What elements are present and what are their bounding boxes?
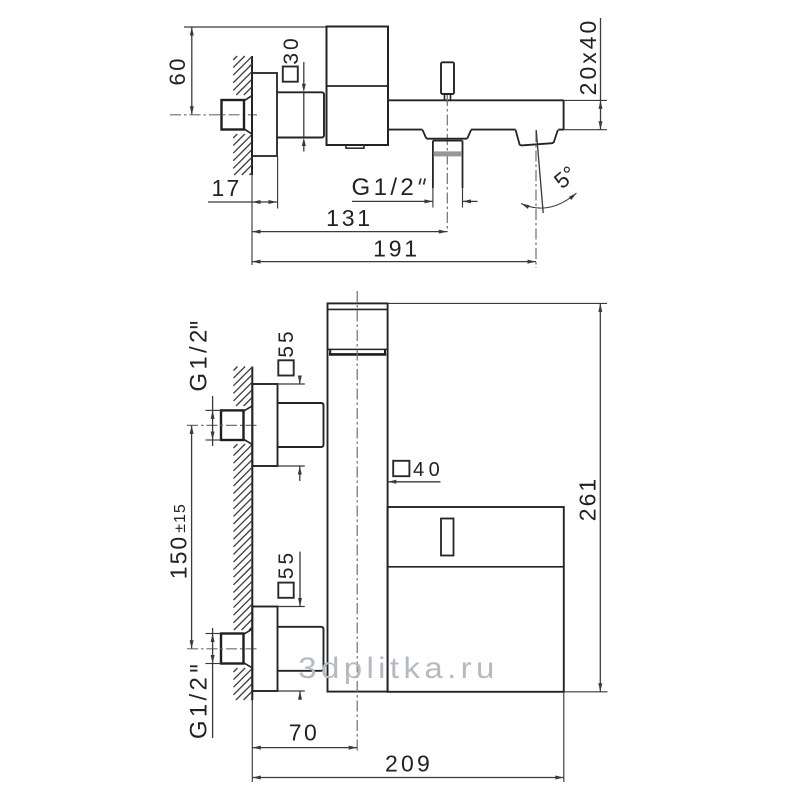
label 17 bbox=[212, 175, 242, 201]
spout arm (top view) bbox=[388, 100, 564, 129]
svg-text:G1/2: G1/2 bbox=[352, 174, 418, 201]
bar centerline bbox=[356, 291, 358, 752]
svg-text:191: 191 bbox=[373, 236, 420, 262]
5 degree arc with arrows bbox=[521, 193, 577, 209]
dimension line 191 bbox=[252, 260, 536, 264]
hand-shower nipple bbox=[433, 141, 463, 208]
dimension line 131 bbox=[252, 230, 447, 234]
label 191 bbox=[373, 236, 420, 262]
svg-text:70: 70 bbox=[289, 720, 320, 746]
nipple knurl band bbox=[434, 151, 462, 156]
diverter knob bbox=[441, 62, 454, 100]
handle box slot bbox=[441, 519, 454, 556]
extension line top of body for dim 60 bbox=[184, 26, 327, 28]
svg-text:17: 17 bbox=[212, 175, 242, 201]
vertical body bar bbox=[328, 303, 388, 691]
svg-text:G1/2: G1/2 bbox=[185, 326, 212, 391]
lower wall union bbox=[221, 629, 252, 667]
wall section line (front view) bbox=[251, 367, 253, 783]
label 20x40 bbox=[575, 18, 601, 96]
leader dim G1/2 lower bbox=[206, 628, 222, 738]
upper union centerline bbox=[187, 424, 258, 426]
label 209 bbox=[385, 751, 433, 777]
extension line box right for 209 bbox=[563, 692, 565, 782]
svg-text:60: 60 bbox=[165, 56, 190, 85]
label square30 digits bbox=[280, 35, 303, 64]
svg-text:261: 261 bbox=[574, 477, 600, 521]
svg-text:55: 55 bbox=[275, 328, 298, 357]
svg-text:3dplitka.ru: 3dplitka.ru bbox=[298, 650, 499, 684]
svg-text:±15: ±15 bbox=[172, 503, 189, 533]
label square55 upper glyph bbox=[278, 360, 293, 375]
spout centerline bbox=[535, 131, 537, 268]
extension line escutcheon front for dim 17 bbox=[277, 156, 279, 209]
dimension line 55 lower bbox=[298, 552, 302, 700]
escutcheon plate (top view) bbox=[252, 73, 277, 156]
upper wall union bbox=[221, 406, 252, 444]
svg-text:G1/2: G1/2 bbox=[185, 674, 212, 739]
upper connector block bbox=[278, 403, 324, 447]
label G1/2 upper bbox=[185, 323, 212, 392]
centerline wall union (top view) bbox=[170, 114, 257, 116]
spout outlet bbox=[516, 130, 558, 146]
svg-text:20x40: 20x40 bbox=[575, 18, 601, 96]
leader line square40 bbox=[388, 480, 441, 484]
dimension line 209 bbox=[252, 776, 564, 780]
label square40 digits bbox=[413, 459, 444, 481]
svg-text:40: 40 bbox=[413, 459, 444, 481]
5 degree slanted line bbox=[536, 130, 543, 213]
lower flange extension lines bbox=[278, 607, 305, 692]
wall hatching band 1 bbox=[234, 367, 253, 407]
dimension line 261 bbox=[598, 303, 602, 691]
wall hatching band 2 bbox=[234, 444, 253, 630]
hand-shower flange bbox=[423, 130, 472, 139]
svg-text:55: 55 bbox=[275, 550, 298, 579]
wall hatching lower (top view) bbox=[233, 134, 252, 175]
label G1/2 inch (top view) bbox=[352, 174, 426, 201]
mixer body (top view) bbox=[327, 27, 389, 146]
bar joint seam bbox=[328, 349, 388, 354]
svg-text:131: 131 bbox=[326, 205, 373, 231]
label square55 lower glyph bbox=[278, 583, 293, 598]
connector body 30 (top view) bbox=[278, 92, 325, 137]
dimension line 20x40 bbox=[599, 18, 603, 130]
wall union square (top view) bbox=[222, 96, 252, 134]
leader dim G1/2 upper bbox=[206, 396, 222, 446]
dimension line 70 bbox=[252, 746, 357, 750]
extension lines arm end for 20x40 bbox=[564, 100, 607, 129]
label square55 lower digits bbox=[275, 550, 298, 579]
label 150 bbox=[166, 535, 192, 579]
upper flange extension lines bbox=[278, 384, 305, 466]
svg-text:209: 209 bbox=[385, 751, 433, 777]
dimension line 150 bbox=[190, 425, 194, 648]
upper escutcheon flange bbox=[252, 384, 277, 466]
wall hatching band 3 bbox=[234, 668, 253, 700]
centerline through knob and hose nipple bbox=[446, 95, 448, 232]
label 261 bbox=[574, 477, 600, 521]
svg-text:30: 30 bbox=[280, 35, 303, 64]
lower escutcheon flange bbox=[252, 607, 277, 692]
label square30 glyph bbox=[283, 67, 298, 82]
svg-text:150: 150 bbox=[166, 535, 192, 579]
watermark 3dplitka.ru bbox=[298, 650, 499, 684]
dimension line 60 bbox=[190, 27, 194, 115]
dimension line 17 bbox=[208, 200, 278, 204]
label square55 upper digits bbox=[275, 328, 298, 357]
label square40 glyph bbox=[393, 461, 409, 476]
label 60 bbox=[165, 56, 190, 85]
body bottom nub bbox=[346, 145, 364, 148]
lower union centerline bbox=[187, 648, 258, 650]
wall hatching upper (top view) bbox=[233, 56, 252, 95]
label G1/2 lower bbox=[185, 666, 212, 739]
extension line box bottom right bbox=[564, 691, 608, 693]
label plusminus 15 bbox=[172, 503, 189, 533]
dimension line 30 with outside arrows bbox=[302, 62, 306, 152]
wall section line (top view) bbox=[251, 56, 253, 265]
dimension line 55 upper bbox=[298, 376, 302, 482]
dimension line G1/2 (top view) bbox=[352, 199, 478, 203]
label 5 degrees bbox=[549, 161, 581, 194]
extension line bar top right bbox=[388, 302, 607, 304]
handle box bbox=[388, 507, 564, 692]
lower connector block bbox=[278, 627, 324, 671]
label 131 bbox=[326, 205, 373, 231]
label 70 bbox=[289, 720, 320, 746]
